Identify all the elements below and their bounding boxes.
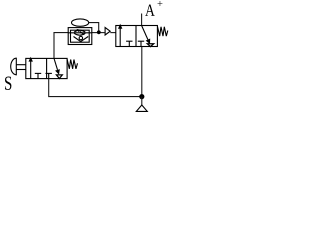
wire [141, 97, 143, 105]
pilot triangle of valve A+ [105, 28, 110, 36]
wire [49, 47, 142, 97]
valve A+ body [116, 26, 158, 47]
label A+ [145, 4, 155, 15]
valve S right-box exhaust flow arrow [54, 58, 60, 74]
throttle arcs [74, 30, 85, 35]
node A [97, 30, 101, 34]
valve A+ exhaust triangle [147, 44, 153, 47]
valve A+ right-box exhaust flow arrow [142, 26, 151, 45]
wire [54, 33, 68, 59]
valve S exhaust triangle [56, 75, 62, 79]
compressed air source [136, 105, 147, 111]
wire [110, 32, 116, 34]
valve A+ left-box flow arrow [118, 24, 122, 47]
wire [89, 23, 99, 33]
wire [141, 14, 143, 26]
check valve circle and seat [74, 36, 89, 41]
valve S body [26, 58, 67, 78]
valve S left-box blocked port T [35, 73, 41, 78]
wire [92, 32, 105, 34]
valve S right-box blocked port T [46, 73, 52, 78]
adjustability arrow [76, 29, 84, 35]
valve S return spring [67, 59, 77, 69]
valve A+ return spring [158, 27, 168, 36]
valve A+ right-box blocked port T [138, 41, 144, 46]
node P [139, 94, 144, 99]
valve A+ left-box blocked port T [126, 41, 132, 46]
valve S pushbutton actuator [11, 58, 26, 75]
valve S left-box flow arrow [29, 57, 33, 79]
one-way flow control valve body [68, 28, 92, 45]
air reservoir ellipse [72, 19, 89, 26]
label S [5, 76, 11, 89]
